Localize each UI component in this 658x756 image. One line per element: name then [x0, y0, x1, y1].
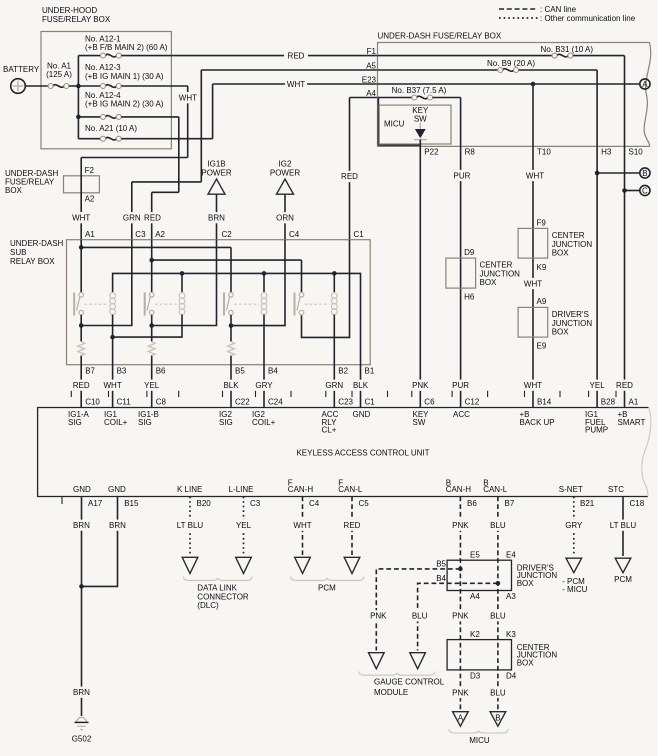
svg-text:COIL+: COIL+ [252, 418, 276, 427]
wire C18 STC LT BLU [607, 497, 639, 557]
wire WHT through F2 down to A1 [72, 158, 90, 240]
svg-text:YEL: YEL [236, 521, 252, 530]
wire A1 pin down to relay1 switch [80, 240, 82, 293]
wire B15 BRN [82, 497, 127, 587]
svg-text:B6: B6 [467, 499, 477, 508]
connector circled C [640, 185, 650, 195]
wire coil4 bottom to B2 [333, 315, 335, 365]
svg-text:No. A12-3: No. A12-3 [85, 63, 121, 72]
svg-text:BOX: BOX [480, 278, 498, 287]
wire A5 row [201, 69, 377, 71]
svg-text:B3: B3 [117, 367, 127, 376]
wire H3 to circled B [595, 171, 640, 176]
legend other communication line [499, 14, 636, 23]
brace PCM [291, 577, 364, 581]
svg-text:STC: STC [608, 485, 624, 494]
wire B4 to C24 GRY [255, 365, 273, 408]
svg-text:H6: H6 [464, 292, 475, 301]
svg-text:UNDER-HOOD: UNDER-HOOD [42, 6, 97, 15]
svg-text:WHT: WHT [524, 279, 542, 288]
svg-text:WHT: WHT [179, 94, 197, 103]
svg-text:G502: G502 [72, 735, 92, 744]
wire C3 L-line YEL [235, 497, 253, 556]
wire H3 to B28 YEL [588, 146, 606, 407]
fuse No.B9 (20A) [378, 59, 536, 72]
wire B6 B CAN-H PNK [452, 497, 470, 710]
wire B9 to H3 column [519, 70, 598, 146]
wire A4 row to C1 column down to relay box [339, 98, 378, 240]
label DATA LINK CONNECTOR (DLC) [197, 584, 249, 611]
node ground join [79, 584, 84, 589]
svg-text:A2: A2 [155, 230, 165, 239]
svg-text:SMART: SMART [618, 418, 646, 427]
pin C4 keyless [288, 478, 320, 508]
svg-text:A4: A4 [470, 592, 480, 601]
wire B7 to C10 RED [72, 365, 90, 408]
svg-text:L-LINE: L-LINE [229, 485, 254, 494]
wire B5 branch PNK [369, 567, 462, 651]
wire A17 BRN [73, 497, 91, 587]
svg-text:GAUGE CONTROL: GAUGE CONTROL [374, 678, 445, 687]
pin A1 [618, 397, 646, 426]
svg-text:FUSE/RELAY BOX: FUSE/RELAY BOX [42, 15, 111, 24]
svg-text:BRN: BRN [208, 214, 225, 223]
svg-text:PNK: PNK [452, 521, 469, 530]
svg-text:C4: C4 [309, 499, 320, 508]
svg-text:(+B F/B MAIN 2) (60 A): (+B F/B MAIN 2) (60 A) [85, 43, 168, 52]
wire E23 row to circled A [378, 83, 640, 85]
connector MICU B [490, 712, 506, 727]
MICU box [379, 105, 451, 144]
svg-text:B7: B7 [85, 367, 95, 376]
svg-text:B5: B5 [436, 560, 446, 569]
svg-text:RED: RED [144, 214, 161, 223]
connector gauge control module PNK [369, 653, 385, 669]
junction box D9/H6 center junction box [446, 248, 520, 301]
svg-text:WHT: WHT [72, 214, 90, 223]
svg-text:E9: E9 [537, 342, 547, 351]
resistor link B6 [148, 342, 155, 356]
svg-text:GND: GND [73, 485, 91, 494]
connector STC PCM [614, 558, 632, 584]
wire B6 to C8 YEL [143, 365, 161, 408]
svg-text:BLU: BLU [490, 688, 506, 697]
svg-text:YEL: YEL [144, 381, 160, 390]
SECTION: top-left under-hood [3, 6, 378, 240]
wire R8 to C12 PUR [452, 146, 471, 407]
svg-text:No. B31 (10 A): No. B31 (10 A) [541, 45, 594, 54]
pin B7 keyless [483, 478, 515, 508]
wire B1 to C1 BLK [352, 365, 370, 408]
svg-text:PUR: PUR [454, 171, 471, 180]
svg-text:B15: B15 [124, 499, 139, 508]
wire A21 output up to E23/WHT row [121, 84, 212, 139]
svg-text:C10: C10 [85, 397, 100, 406]
svg-text:BOX: BOX [552, 248, 570, 257]
wire S10 to A1 RED [616, 146, 634, 407]
svg-text:BATTERY: BATTERY [3, 65, 40, 74]
connector gauge control module BLU [410, 653, 426, 669]
svg-text:BRN: BRN [73, 521, 90, 530]
junction column [77, 56, 79, 139]
wire battery to box [25, 85, 48, 87]
svg-text:A: A [458, 713, 464, 722]
wire P22 to C6 PNK [411, 146, 429, 407]
svg-text:RELAY BOX: RELAY BOX [10, 257, 55, 266]
wire WHT row to E23 [213, 79, 378, 90]
wire trunk to G502 [73, 586, 91, 716]
svg-text:: Other communication line: : Other communication line [540, 14, 636, 23]
pin B15 [108, 485, 139, 508]
svg-text:BOX: BOX [552, 327, 570, 336]
svg-text:GRN: GRN [123, 214, 141, 223]
wire B21 S-NET GRY [565, 497, 583, 557]
svg-text:B21: B21 [580, 499, 595, 508]
relay 2 [145, 293, 185, 316]
svg-text:BLK: BLK [353, 381, 369, 390]
connector DLC L-line [236, 557, 252, 573]
SECTION: bottom [72, 497, 639, 746]
svg-text:SIG: SIG [68, 418, 82, 427]
svg-text:UNDER-DASH FUSE/RELAY BOX: UNDER-DASH FUSE/RELAY BOX [378, 31, 502, 40]
svg-text:T10: T10 [537, 148, 551, 157]
pin C6 [413, 397, 436, 426]
svg-text:GRY: GRY [255, 381, 273, 390]
wire A2 pin down to relay2 switch [151, 240, 153, 293]
svg-text:K2: K2 [470, 630, 480, 639]
center junction box (bottom) [447, 630, 557, 681]
svg-text:RED: RED [616, 381, 633, 390]
svg-text:D9: D9 [464, 248, 475, 257]
svg-text:PCM: PCM [614, 575, 632, 584]
connector circled B [640, 168, 650, 178]
svg-text:RED: RED [341, 172, 358, 181]
svg-text:C3: C3 [135, 230, 146, 239]
resistor link B7 [78, 342, 85, 356]
svg-text:SW: SW [413, 418, 426, 427]
pin C3 keyless [229, 485, 261, 508]
svg-text:BLU: BLU [412, 612, 428, 621]
svg-text:SIG: SIG [219, 418, 233, 427]
svg-text:B7: B7 [505, 499, 515, 508]
node junction B [76, 115, 81, 120]
wire relay2 switch output B6 [149, 315, 154, 365]
svg-text:ORN: ORN [276, 214, 294, 223]
pin B28 [585, 397, 616, 434]
fuse No.A21 (10A) [78, 124, 137, 141]
svg-text:R8: R8 [465, 148, 476, 157]
svg-text:MODULE: MODULE [374, 688, 408, 697]
svg-text:C8: C8 [156, 397, 167, 406]
svg-text:A: A [642, 80, 648, 89]
svg-text:C1: C1 [354, 230, 365, 239]
brace gauge control module [359, 671, 435, 675]
svg-text:C3: C3 [250, 499, 261, 508]
svg-text:C4: C4 [289, 230, 300, 239]
svg-text:B4: B4 [436, 574, 446, 583]
svg-text:C12: C12 [465, 397, 480, 406]
svg-text:A9: A9 [537, 297, 547, 306]
wire B37 to R8 column [433, 98, 461, 147]
connector MICU A [453, 712, 469, 727]
svg-text:C5: C5 [359, 499, 370, 508]
svg-text:UNDER-DASH: UNDER-DASH [10, 239, 64, 248]
svg-text:A5: A5 [366, 61, 376, 70]
node T10 junction [531, 82, 536, 87]
pin A17 [62, 485, 103, 508]
pin C10 [68, 397, 100, 426]
connector circled A [640, 79, 650, 89]
wire bus2 [152, 260, 302, 292]
wire B3 to C11 WHT [103, 365, 121, 408]
wire A12-3 output to WHT vertical [121, 85, 187, 87]
wire B20 K-line LT BLU [174, 497, 206, 556]
brace DLC [183, 577, 252, 581]
svg-text:C6: C6 [424, 397, 435, 406]
svg-text:PUR: PUR [452, 381, 469, 390]
svg-text:E4: E4 [506, 550, 516, 559]
svg-text:CAN-H: CAN-H [446, 485, 472, 494]
label GAUGE CONTROL MODULE [374, 678, 445, 697]
svg-text:F2: F2 [85, 166, 95, 175]
svg-text:K9: K9 [537, 263, 547, 272]
wire C2 pin down and left to relay2 output [152, 240, 217, 326]
wire A12-4 output to RED/A2 column [121, 117, 179, 192]
connector IG2 POWER [270, 160, 300, 240]
battery [3, 65, 40, 93]
pin C24 [252, 397, 283, 426]
legend CAN line [499, 5, 577, 14]
pin B6 keyless [446, 478, 478, 508]
wire C1 pin down and left to relay4 output [302, 240, 350, 338]
fuse No.A12-3 (+B IG MAIN 1)(30A) [85, 63, 164, 89]
svg-text:GND: GND [353, 410, 371, 419]
svg-text:A1: A1 [629, 397, 639, 406]
resistor link B5 [228, 342, 235, 356]
svg-text:PNK: PNK [412, 381, 429, 390]
svg-text:K3: K3 [506, 630, 516, 639]
svg-text:(+B IG MAIN 1) (30 A): (+B IG MAIN 1) (30 A) [85, 72, 164, 81]
svg-text:IG1B: IG1B [207, 160, 225, 169]
pin C8 [138, 397, 166, 426]
svg-text:B28: B28 [601, 397, 616, 406]
svg-text:D3: D3 [470, 672, 481, 681]
svg-text:WHT: WHT [526, 171, 544, 180]
node bus1 junction [79, 245, 84, 250]
connector IG1B POWER [201, 160, 231, 240]
wire coil link L2 [113, 315, 182, 338]
svg-text:CAN-L: CAN-L [483, 485, 508, 494]
brace MICU [449, 729, 508, 733]
svg-text:CAN-L: CAN-L [338, 485, 363, 494]
svg-text:A17: A17 [88, 499, 103, 508]
svg-text:YEL: YEL [590, 381, 606, 390]
svg-text:B14: B14 [537, 397, 552, 406]
wire across under box to F2 column [81, 157, 188, 159]
svg-text:C22: C22 [235, 397, 250, 406]
svg-text:F1: F1 [367, 47, 377, 56]
svg-text:C18: C18 [630, 499, 645, 508]
wire B5 to C22 BLK [222, 365, 240, 408]
wire RED down to A2 pin [144, 192, 162, 239]
svg-text:H3: H3 [601, 148, 612, 157]
svg-text:POWER: POWER [201, 168, 231, 177]
wire T10 to B14 WHT [524, 146, 544, 407]
SECTION: keyless box [38, 391, 651, 508]
svg-text:- MICU: - MICU [562, 585, 588, 594]
svg-text:DATA LINK: DATA LINK [197, 584, 237, 593]
svg-text:B4: B4 [268, 367, 278, 376]
wire bus1 [81, 247, 231, 292]
key switch KEY SW [412, 106, 429, 146]
fuse No.A1 (125A) [46, 62, 72, 89]
under-hood fuse/relay box [41, 6, 171, 149]
svg-text:C23: C23 [338, 397, 353, 406]
svg-text:WHT: WHT [524, 381, 542, 390]
svg-text:(DLC): (DLC) [197, 601, 219, 610]
connector DLC K-line [182, 557, 198, 573]
pin B21 [559, 485, 595, 508]
svg-text:BRN: BRN [109, 521, 126, 530]
svg-text:No. B9 (20 A): No. B9 (20 A) [487, 59, 535, 68]
fuse No.A12-4 (+B IG MAIN 2)(30A) [78, 91, 163, 119]
wire A5 to GRN/C3 column [132, 70, 202, 240]
svg-text:MICU: MICU [384, 120, 405, 129]
pin B20 [177, 485, 211, 508]
keyless access control unit box [38, 408, 651, 497]
svg-text:ACC: ACC [453, 410, 470, 419]
svg-text:MICU: MICU [469, 736, 490, 745]
svg-text:PNK: PNK [452, 688, 469, 697]
svg-text:B5: B5 [235, 367, 245, 376]
svg-text:A3: A3 [506, 592, 516, 601]
SECTION: middle relay box [10, 230, 375, 408]
svg-text:K LINE: K LINE [177, 485, 202, 494]
svg-text:GRY: GRY [565, 521, 583, 530]
wire bus3 coil common to B1 [113, 271, 361, 365]
wire coil1 bottom to B3 [110, 315, 115, 365]
svg-text:C: C [642, 186, 648, 195]
fuse No.B37 (7.5A) [378, 86, 447, 100]
svg-text:C1: C1 [365, 397, 376, 406]
svg-text:B1: B1 [365, 367, 375, 376]
relay 3 [224, 293, 267, 316]
wire B4 branch BLU [411, 581, 500, 651]
wire relay1 switch output B7 [79, 315, 84, 365]
svg-text:C24: C24 [268, 397, 283, 406]
svg-text:BLU: BLU [490, 521, 506, 530]
svg-text:PCM: PCM [318, 584, 336, 593]
svg-text:No. B37 (7.5 A): No. B37 (7.5 A) [392, 86, 447, 95]
svg-text:GND: GND [108, 485, 126, 494]
pin B14 [520, 397, 555, 426]
svg-text:E23: E23 [362, 75, 377, 84]
connector S-NET PCM/MICU [562, 558, 588, 594]
svg-text:PUMP: PUMP [585, 426, 608, 435]
svg-text:BLK: BLK [223, 381, 239, 390]
svg-text:LT BLU: LT BLU [610, 521, 637, 530]
svg-text:BOX: BOX [5, 186, 23, 195]
svg-text:RED: RED [344, 521, 361, 530]
under-dash fuse/relay box (top right) [378, 31, 651, 146]
svg-text:SIG: SIG [138, 418, 152, 427]
svg-text:B20: B20 [197, 499, 212, 508]
svg-text:BOX: BOX [517, 579, 535, 588]
wire C4 F CAN-H WHT [293, 497, 311, 556]
svg-text:SUB: SUB [10, 248, 26, 257]
svg-text:CENTER: CENTER [552, 231, 585, 240]
relay 4 [295, 293, 338, 316]
svg-text:BRN: BRN [73, 688, 90, 697]
svg-text:B: B [642, 169, 647, 178]
connector PCM F CAN-L [344, 557, 360, 573]
wire C4 pin down and left to relay3 output [231, 240, 285, 326]
svg-text:PNK: PNK [452, 612, 469, 621]
junction box A9/E9 driver's junction box [518, 297, 592, 351]
svg-text:(+B IG MAIN 2) (30 A): (+B IG MAIN 2) (30 A) [85, 100, 164, 109]
svg-text:C2: C2 [222, 230, 233, 239]
svg-text:WHT: WHT [293, 521, 311, 530]
svg-text:D4: D4 [506, 672, 517, 681]
svg-text:SW: SW [414, 115, 427, 124]
pin C5 keyless [338, 478, 369, 508]
wire C5 F CAN-L RED [343, 497, 361, 556]
svg-text:P22: P22 [424, 148, 439, 157]
svg-text:POWER: POWER [270, 168, 300, 177]
under-dash sub relay box [10, 239, 370, 365]
wire RED row A12-1 to F1 [121, 50, 377, 61]
driver's junction box (bottom) [436, 550, 557, 601]
wire T10 column [532, 84, 534, 146]
svg-text:PNK: PNK [370, 612, 387, 621]
pin C22 [219, 397, 250, 426]
svg-text:S-NET: S-NET [559, 485, 583, 494]
svg-text:COIL+: COIL+ [104, 418, 128, 427]
junction box F9/K9 center junction box [518, 219, 592, 272]
pin C11 [104, 397, 131, 426]
wire A4 feed down left side [378, 98, 420, 146]
wire B7 B CAN-L BLU [489, 497, 507, 710]
wire coil3 bottom to B4 [263, 315, 265, 365]
connector PCM F CAN-H [295, 557, 311, 573]
wire S10 to circled C [622, 188, 640, 193]
svg-text:IG2: IG2 [279, 160, 292, 169]
wire A1 fuse to junction and A12-3 fuse [69, 85, 101, 87]
svg-text:LT BLU: LT BLU [177, 521, 204, 530]
wire B2 to C23 GRN [325, 365, 343, 408]
svg-text:DRIVER'S: DRIVER'S [552, 310, 589, 319]
ground G502 [72, 718, 92, 744]
svg-text:BACK UP: BACK UP [520, 418, 555, 427]
svg-text:B6: B6 [156, 367, 166, 376]
fuse No.A12-1 (+B F/B MAIN 2)(60A) [78, 35, 167, 59]
svg-text:GRN: GRN [325, 381, 343, 390]
svg-text:BLU: BLU [490, 612, 506, 621]
svg-text:RED: RED [73, 381, 90, 390]
svg-text:B: B [495, 713, 500, 722]
top pin ticks [71, 391, 616, 397]
svg-text:A4: A4 [366, 89, 376, 98]
svg-text:A1: A1 [85, 230, 95, 239]
svg-text:S10: S10 [629, 148, 644, 157]
svg-text:C11: C11 [117, 397, 132, 406]
wire B31 to S10 column [573, 56, 625, 147]
SECTION: top-right under-dash fuse box [362, 5, 651, 196]
svg-text:No. A21 (10 A): No. A21 (10 A) [85, 124, 137, 133]
SECTION: middle right columns [411, 146, 633, 407]
pin C12 [453, 397, 480, 419]
svg-text:WHT: WHT [103, 381, 121, 390]
